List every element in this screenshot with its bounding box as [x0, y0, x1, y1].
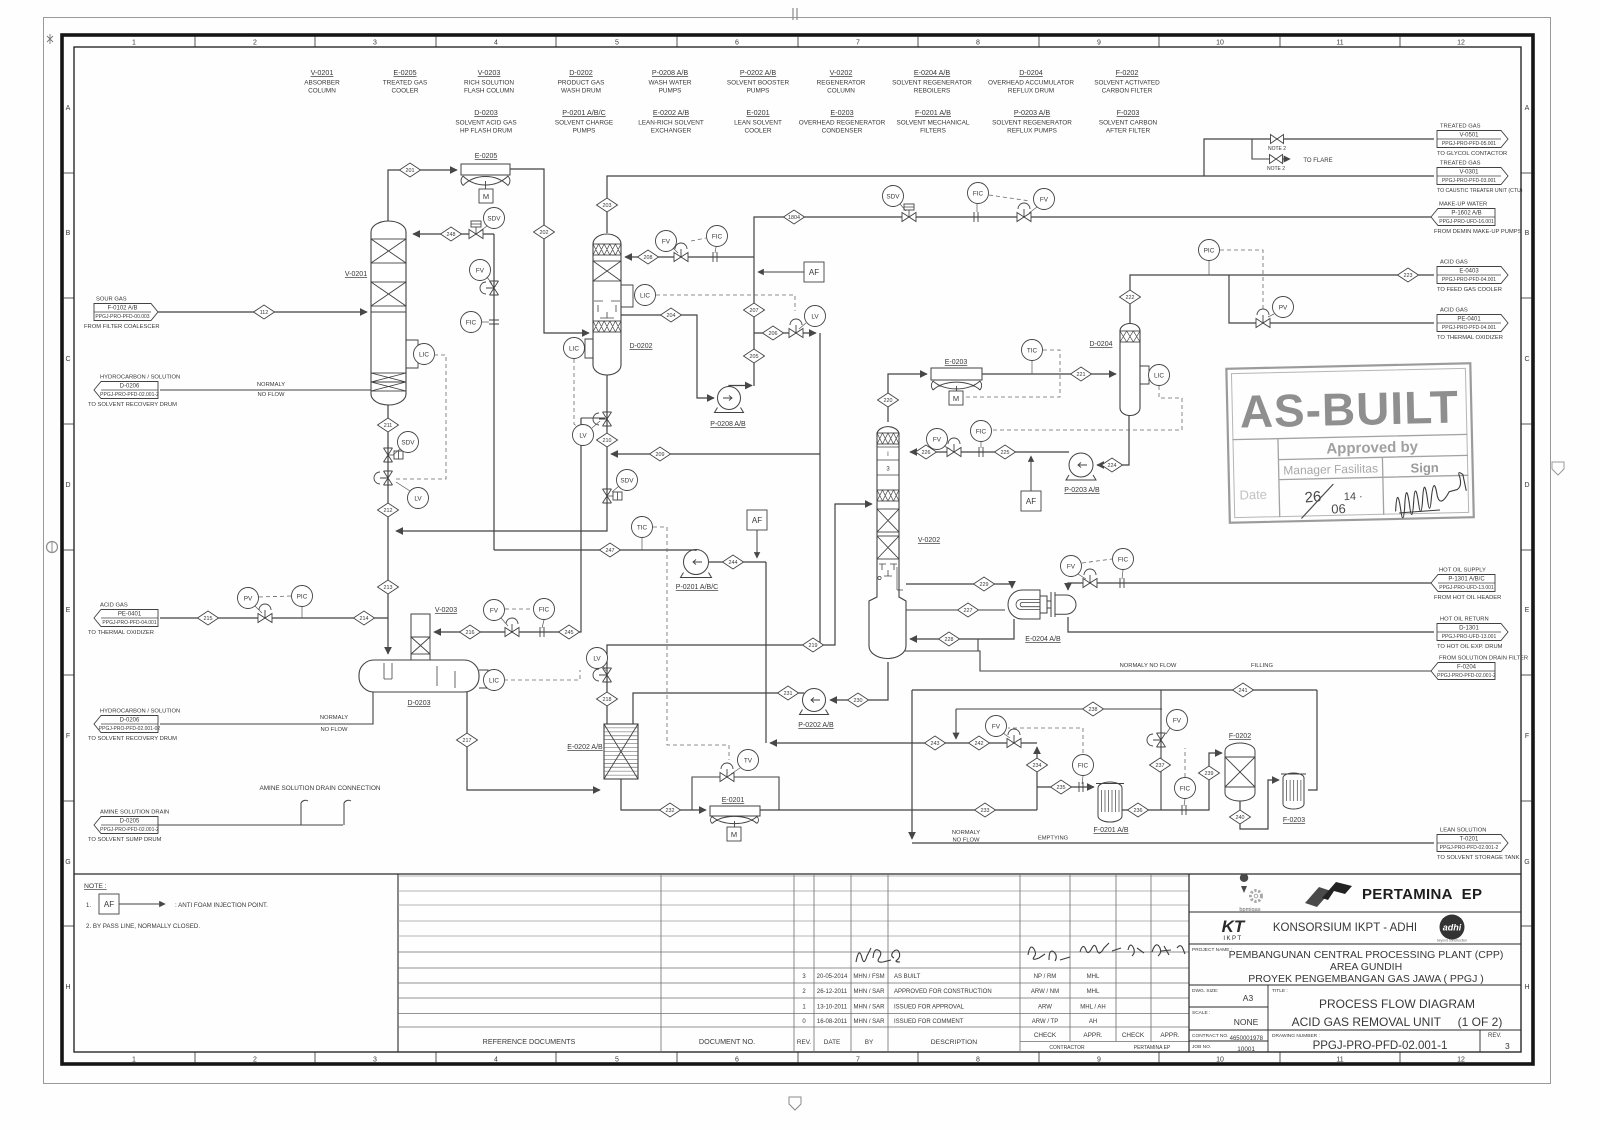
- signal FIC stem: [482, 321, 489, 323]
- node stream 228: [939, 632, 960, 646]
- PV control valve line 214: [258, 604, 272, 623]
- svg-text:TREATED GAS: TREATED GAS: [383, 80, 428, 87]
- wire V-0202 overhead to E-0203: [888, 374, 927, 422]
- LV control valve on V-0201 bottoms: [374, 471, 393, 485]
- svg-text:P-0208 A/B: P-0208 A/B: [652, 68, 689, 77]
- air cooler E-0205: [461, 164, 510, 189]
- wire V-0201 bottoms to D-0203: [387, 405, 389, 654]
- instrument LV: [805, 306, 826, 327]
- signal PV slant: [255, 606, 262, 613]
- node stream 219: [803, 638, 824, 652]
- svg-text:P-0202 A/B: P-0202 A/B: [798, 722, 834, 729]
- svg-text:WASH DRUM: WASH DRUM: [561, 88, 601, 95]
- svg-text:HOT OIL SUPPLY: HOT OIL SUPPLY: [1439, 568, 1486, 574]
- svg-text:TITLE :: TITLE :: [1272, 988, 1288, 994]
- svg-text:211: 211: [384, 423, 393, 429]
- signal FV-FIC dashed hot oil: [1082, 559, 1112, 563]
- signal PIC to PV dashed: [1220, 250, 1263, 311]
- wire P-0202 discharge to E-0202 hot side: [633, 693, 804, 724]
- svg-text:H: H: [65, 984, 70, 991]
- svg-text:F-0203: F-0203: [1117, 108, 1140, 117]
- svg-text:D-1301: D-1301: [1459, 626, 1479, 632]
- svg-text:226: 226: [922, 450, 931, 456]
- signal FIC stem 216: [542, 620, 544, 628]
- wire AF injection to riser x754: [758, 271, 804, 273]
- svg-text:NO FLOW: NO FLOW: [257, 392, 285, 398]
- reflux drum D-0204: [1120, 324, 1140, 416]
- svg-text:213: 213: [384, 585, 393, 591]
- svg-text:P-0201 A/B/C: P-0201 A/B/C: [562, 108, 606, 117]
- svg-text:220: 220: [884, 398, 893, 404]
- svg-text:A: A: [66, 105, 71, 112]
- svg-text:LV: LV: [811, 313, 819, 320]
- svg-text:ACID GAS: ACID GAS: [1440, 260, 1468, 266]
- svg-text:AS BUILT: AS BUILT: [894, 974, 921, 980]
- svg-text:PPGJ-PRO-PFD-05.001: PPGJ-PRO-PFD-05.001: [1442, 141, 1496, 147]
- svg-text:V-0203: V-0203: [478, 68, 501, 77]
- wire E-0201 outlet line 233: [760, 809, 1037, 811]
- FV control valve on reflux: [947, 438, 961, 457]
- svg-text:V-0301: V-0301: [1459, 170, 1479, 176]
- svg-text:215: 215: [204, 616, 213, 622]
- svg-text:PE-0401: PE-0401: [1457, 317, 1481, 323]
- instrument FIC: [968, 183, 989, 204]
- svg-text:FV: FV: [476, 267, 485, 274]
- anti-foam injection AF: [99, 894, 119, 914]
- svg-text:TO SOLVENT RECOVERY DRUM: TO SOLVENT RECOVERY DRUM: [88, 402, 177, 408]
- svg-text:APPR.: APPR.: [1160, 1032, 1179, 1039]
- svg-text:D-0206: D-0206: [120, 718, 140, 724]
- svg-text:244: 244: [729, 560, 738, 566]
- instrument TIC: [1022, 340, 1043, 361]
- svg-text:BY: BY: [865, 1039, 874, 1046]
- svg-text:bpmigas: bpmigas: [1239, 907, 1260, 913]
- drawing number cell: [1272, 1033, 1447, 1052]
- svg-text:F-0102 A/B: F-0102 A/B: [107, 306, 137, 312]
- svg-text:COLUMN: COLUMN: [827, 88, 855, 95]
- signal SDV slant 210: [612, 486, 619, 492]
- svg-text:208: 208: [644, 255, 653, 261]
- svg-text:E-0204 A/B: E-0204 A/B: [914, 68, 951, 77]
- svg-text:224: 224: [1108, 463, 1117, 469]
- instrument FIC: [1113, 549, 1134, 570]
- stream tag PE-0401: [1437, 308, 1508, 342]
- signal LIC D-0203 to LV: [504, 670, 580, 680]
- svg-text:240: 240: [1236, 815, 1245, 821]
- node stream 234: [1027, 758, 1048, 772]
- FV control valve line 242: [1007, 729, 1021, 748]
- wire AF injection to reflux line: [1030, 456, 1032, 491]
- svg-text:06: 06: [1331, 501, 1346, 516]
- node stream 209: [650, 447, 671, 461]
- svg-text:HYDROCARBON / SOLUTION: HYDROCARBON / SOLUTION: [100, 709, 180, 715]
- svg-text:20-05-2014: 20-05-2014: [817, 974, 848, 980]
- svg-text:PPGJ-PRO-UFD-16.001: PPGJ-PRO-UFD-16.001: [1439, 219, 1494, 225]
- svg-text:D-0202: D-0202: [630, 343, 653, 350]
- svg-text:TO THERMAL OXIDIZER: TO THERMAL OXIDIZER: [88, 630, 154, 636]
- wire vertical x1317 to F-0203: [1308, 690, 1317, 790]
- svg-text:NO FLOW: NO FLOW: [320, 727, 348, 733]
- signal PV-PIC dashed: [259, 596, 291, 597]
- svg-text:8: 8: [976, 1057, 980, 1064]
- svg-text:DWG. SIZE:: DWG. SIZE:: [1192, 988, 1218, 994]
- wire sour gas feed to V-0201: [158, 311, 367, 313]
- svg-text:D-0205: D-0205: [120, 819, 140, 825]
- svg-text:AH: AH: [1089, 1019, 1097, 1025]
- svg-text:IKPT: IKPT: [1223, 936, 1242, 942]
- svg-text:3: 3: [1505, 1041, 1510, 1051]
- svg-text:1.: 1.: [86, 903, 91, 909]
- svg-text:COOLER: COOLER: [392, 88, 419, 95]
- svg-text:242: 242: [975, 741, 984, 747]
- svg-text:AFTER FILTER: AFTER FILTER: [1106, 128, 1151, 135]
- svg-text:V-0202: V-0202: [918, 537, 940, 544]
- node stream 225: [995, 445, 1016, 459]
- stream tag V-0301: [1437, 161, 1523, 195]
- node stream 232: [660, 803, 681, 817]
- signal SDV slant make-up: [900, 204, 906, 211]
- level bridle D-0204: [1140, 366, 1149, 384]
- LV control valve on D-0202 bottoms: [593, 412, 612, 426]
- svg-text:TIC: TIC: [1027, 347, 1038, 354]
- grid ruler numbers top: [132, 36, 1465, 47]
- stream tag PE-0401: [88, 603, 158, 637]
- AS-BUILT stamp: [1226, 363, 1473, 522]
- svg-text:7: 7: [856, 1057, 860, 1064]
- svg-text:F-0202: F-0202: [1229, 733, 1251, 740]
- instrument FV: [1167, 710, 1188, 731]
- wire D-0204 overhead acid gas: [1130, 275, 1397, 324]
- svg-text:LEAN SOLUTION: LEAN SOLUTION: [1440, 828, 1486, 834]
- FV control valve on F-0202 feed: [1147, 733, 1166, 747]
- wire make-up water main: [754, 217, 1431, 386]
- svg-text:TO SOLVENT SUMP DRUM: TO SOLVENT SUMP DRUM: [88, 837, 162, 843]
- signal FV-FIC dashed: [691, 238, 706, 241]
- instrument LV: [587, 648, 608, 669]
- level bridle V-0201: [406, 340, 418, 368]
- svg-text:TIC: TIC: [637, 524, 648, 531]
- instrument FIC: [534, 599, 555, 620]
- svg-text:TREATED GAS: TREATED GAS: [1440, 124, 1481, 130]
- svg-text:112: 112: [260, 310, 269, 316]
- signal FIC stem hot oil: [1122, 570, 1123, 579]
- svg-text:D-0202: D-0202: [569, 68, 593, 77]
- svg-text:231: 231: [784, 691, 793, 697]
- node stream 223: [1398, 268, 1419, 282]
- svg-text:P-1301 A/B/C: P-1301 A/B/C: [1448, 577, 1485, 583]
- instrument FV: [1034, 189, 1055, 210]
- svg-text:KONSORSIUM IKPT - ADHI: KONSORSIUM IKPT - ADHI: [1273, 922, 1417, 934]
- svg-text:13-10-2011: 13-10-2011: [817, 1005, 848, 1011]
- svg-text:LV: LV: [414, 495, 422, 502]
- node stream 247: [600, 543, 621, 557]
- title block frame: [1189, 874, 1521, 1052]
- instrument FIC: [1073, 755, 1094, 776]
- svg-text:230: 230: [854, 698, 863, 704]
- svg-text:FIC: FIC: [976, 428, 987, 435]
- svg-text:F-0201 A/B: F-0201 A/B: [915, 108, 951, 117]
- svg-text:203: 203: [603, 203, 612, 209]
- svg-text:CARBON FILTER: CARBON FILTER: [1102, 88, 1153, 95]
- svg-text:SDV: SDV: [886, 193, 900, 200]
- svg-text:210: 210: [603, 438, 612, 444]
- svg-text:NORMALY NO FLOW: NORMALY NO FLOW: [1120, 663, 1177, 669]
- svg-text:MHN / SAR: MHN / SAR: [853, 989, 885, 995]
- svg-text:V-0201: V-0201: [311, 68, 334, 77]
- FV control valve line 216: [505, 618, 519, 637]
- node stream 239: [1199, 766, 1220, 780]
- node stream 238: [1083, 702, 1104, 716]
- node stream 236: [1128, 803, 1149, 817]
- signal FIC stem 235: [1082, 776, 1083, 784]
- node stream 202: [534, 225, 555, 239]
- wire FV line to F-0202 branch: [1160, 690, 1162, 810]
- instrument FV: [484, 600, 505, 621]
- wire E-0205 outlet to D-0202: [510, 169, 589, 333]
- svg-text:NOTE 2: NOTE 2: [1268, 146, 1286, 152]
- wire lean solution bottom line: [912, 842, 1434, 844]
- svg-text:TV: TV: [744, 757, 753, 764]
- SDV valve on V-0201 lean feed: [469, 221, 483, 239]
- svg-text:REBOILERS: REBOILERS: [914, 88, 951, 95]
- signal FV slant make-up: [1029, 207, 1037, 213]
- svg-text:PERTAMINA EP: PERTAMINA EP: [1134, 1045, 1171, 1051]
- wire lean header line B y690: [912, 689, 1317, 691]
- wire line 247 lean solvent header: [494, 549, 696, 551]
- svg-text:228: 228: [945, 637, 954, 643]
- instrument SDV: [883, 186, 904, 207]
- svg-text:PV: PV: [244, 595, 253, 602]
- svg-text:TREATED GAS: TREATED GAS: [1440, 161, 1481, 167]
- svg-text:F-0201 A/B: F-0201 A/B: [1093, 827, 1128, 834]
- filter F-0202: [1225, 743, 1255, 801]
- filter F-0201 A/B: [1096, 782, 1124, 822]
- motor M: [949, 391, 963, 405]
- svg-text:227: 227: [964, 608, 973, 614]
- instrument LV: [408, 488, 429, 509]
- wire P-0208 discharge up to wash line: [729, 386, 752, 388]
- svg-text:PPGJ-PRO-PFD-02.001-2: PPGJ-PRO-PFD-02.001-2: [100, 827, 159, 833]
- wire V-0202 bottoms to P-0202: [830, 662, 888, 700]
- svg-text:D-0204: D-0204: [1019, 68, 1043, 77]
- grid ruler numbers bottom: [132, 1052, 1465, 1064]
- signal PIC stem: [1208, 261, 1210, 275]
- wire kettle feed 227: [906, 609, 1005, 611]
- svg-text:FIC: FIC: [1180, 785, 1191, 792]
- svg-text:NONE: NONE: [1234, 1017, 1259, 1027]
- wire hot oil supply: [1068, 583, 1431, 590]
- svg-text:Date: Date: [1239, 487, 1267, 503]
- svg-text:AF: AF: [1026, 497, 1036, 506]
- svg-text:PPGJ-PRO-PFD-00.003: PPGJ-PRO-PFD-00.003: [95, 314, 149, 320]
- equipment list row 2: [455, 108, 1157, 135]
- svg-text:10001: 10001: [1237, 1046, 1255, 1053]
- svg-text:FV: FV: [933, 436, 942, 443]
- wire E-0201 bypass with TV valve: [692, 777, 779, 810]
- node stream 217: [457, 733, 478, 747]
- node stream 210: [597, 433, 618, 447]
- svg-text:1804: 1804: [788, 215, 800, 221]
- node stream 218: [597, 692, 618, 706]
- flow element: [540, 627, 544, 637]
- wire D-0203 drain to recovery drum: [160, 692, 373, 724]
- instrument SDV: [617, 470, 638, 491]
- svg-text:C: C: [65, 356, 70, 363]
- svg-text:247: 247: [606, 548, 615, 554]
- instrument SDV: [484, 208, 505, 229]
- svg-text:2. BY PASS LINE, NORMALLY CLO: 2. BY PASS LINE, NORMALLY CLOSED.: [86, 923, 200, 930]
- svg-text:MHL / AH: MHL / AH: [1080, 1005, 1105, 1011]
- node stream 112: [254, 305, 275, 319]
- signal FV slant 242: [1003, 733, 1010, 738]
- wire bypass line 238: [956, 708, 1162, 710]
- instrument FV: [1061, 556, 1082, 577]
- pump: [1066, 453, 1096, 480]
- regenerator column V-0202: [869, 427, 906, 659]
- svg-text:REGENERATOR: REGENERATOR: [817, 80, 866, 87]
- svg-text:P-0201 A/B/C: P-0201 A/B/C: [676, 584, 718, 591]
- node stream 245: [559, 625, 580, 639]
- TV control valve on E-0201 bypass: [720, 763, 734, 782]
- svg-text:E: E: [66, 607, 71, 614]
- wire acid gas to feed gas cooler: [1397, 274, 1434, 276]
- flow element: [713, 252, 717, 262]
- level bridle D-0203: [479, 670, 488, 688]
- equipment list row 1: [304, 68, 1160, 95]
- svg-text:V-0202: V-0202: [830, 68, 853, 77]
- svg-text:26: 26: [1304, 488, 1322, 506]
- svg-text:E-0201: E-0201: [722, 797, 745, 804]
- signal FIC stem 208: [715, 247, 716, 253]
- svg-text:PUMPS: PUMPS: [659, 88, 682, 95]
- svg-text:NO FLOW: NO FLOW: [952, 838, 980, 844]
- node stream 201: [400, 163, 421, 177]
- fold mark right: [1552, 462, 1564, 475]
- signature scribble appr contractor: [1080, 943, 1121, 953]
- svg-text:F: F: [1525, 733, 1529, 740]
- svg-text:NOTE 2: NOTE 2: [1267, 166, 1285, 172]
- wire flare branch: [1252, 139, 1290, 159]
- svg-text:DESCRIPTION: DESCRIPTION: [931, 1039, 978, 1046]
- svg-text:G: G: [65, 859, 70, 866]
- wash drum column D-0202: [593, 234, 621, 375]
- svg-text:SOLVENT REGENERATOR: SOLVENT REGENERATOR: [992, 120, 1072, 127]
- amine drain connection hooks: [301, 800, 351, 825]
- svg-text:FROM FILTER COALESCER: FROM FILTER COALESCER: [84, 324, 160, 330]
- svg-text:ISSUED FOR APPROVAL: ISSUED FOR APPROVAL: [894, 1005, 965, 1011]
- svg-text:5: 5: [615, 1057, 619, 1064]
- node stream 235: [1051, 780, 1072, 794]
- air cooler E-0201: [710, 806, 760, 827]
- node stream 227: [958, 603, 979, 617]
- instrument PIC: [292, 586, 313, 607]
- svg-text:FROM SOLUTION DRAIN FILTER: FROM SOLUTION DRAIN FILTER: [1439, 656, 1528, 662]
- instrument FV: [927, 429, 948, 450]
- instrument LIC: [484, 670, 505, 691]
- svg-text:PPGJ-PRO-PFD-02.001-02: PPGJ-PRO-PFD-02.001-02: [99, 726, 161, 732]
- svg-text:237: 237: [1156, 763, 1165, 769]
- node stream 222: [1120, 290, 1141, 304]
- svg-text:PUMPS: PUMPS: [747, 88, 770, 95]
- svg-text:11: 11: [1336, 1057, 1343, 1064]
- svg-text:JOB NO.: JOB NO.: [1192, 1044, 1211, 1050]
- svg-text:TO GLYCOL CONTACTOR: TO GLYCOL CONTACTOR: [1437, 151, 1507, 157]
- svg-text:245: 245: [565, 630, 574, 636]
- svg-text:202: 202: [540, 230, 549, 236]
- logo ikpt: [1222, 917, 1246, 942]
- stream tag P-1301 A/B/C: [1431, 568, 1501, 602]
- anti-foam injection AF: [1021, 491, 1041, 511]
- wire line 206 letdown to regenerator: [754, 332, 816, 334]
- node stream 208: [638, 250, 659, 264]
- svg-text:SOUR GAS: SOUR GAS: [96, 297, 127, 303]
- svg-text:4: 4: [494, 1057, 498, 1064]
- wire hot oil return: [1068, 617, 1434, 632]
- instrument FIC: [461, 312, 482, 333]
- svg-text:E-0203: E-0203: [830, 108, 853, 117]
- wire solution drain filling line: [905, 651, 1434, 671]
- svg-text:REV.: REV.: [797, 1039, 812, 1046]
- signal FV slant: [487, 277, 492, 284]
- wire V-0201 overhead to E-0205: [388, 170, 457, 221]
- svg-text:7: 7: [856, 40, 860, 47]
- wire filter feed branch to F-0201: [1037, 786, 1094, 788]
- svg-text:PEMBANGUNAN CENTRAL PROCESSING: PEMBANGUNAN CENTRAL PROCESSING PLANT (CP…: [1229, 949, 1504, 961]
- svg-text:C: C: [1524, 356, 1529, 363]
- svg-text:D-0203: D-0203: [474, 108, 498, 117]
- svg-text:MAKE-UP WATER: MAKE-UP WATER: [1439, 202, 1487, 208]
- wire riser 234 from line 233 to line 242: [1036, 747, 1038, 810]
- table header texts: [483, 1032, 1180, 1051]
- instrument FIC: [1175, 778, 1196, 799]
- svg-text:: ANTI FOAM INJECTION POINT.: : ANTI FOAM INJECTION POINT.: [175, 902, 268, 909]
- svg-text:E-0204 A/B: E-0204 A/B: [1025, 636, 1061, 643]
- node stream 221: [1071, 367, 1092, 381]
- svg-text:NORMALY: NORMALY: [952, 830, 980, 836]
- anti-foam injection AF: [804, 262, 824, 282]
- signal FV slant 208: [673, 248, 678, 253]
- svg-text:NORMALY: NORMALY: [320, 715, 348, 721]
- revision table entries: [802, 974, 1105, 1025]
- svg-text:MHN / SAR: MHN / SAR: [853, 1019, 885, 1025]
- instrument PV: [1273, 297, 1294, 318]
- stream tag D-0206: [88, 375, 180, 409]
- instrument LV: [573, 425, 594, 446]
- svg-text:REFLUX DRUM: REFLUX DRUM: [1008, 88, 1054, 95]
- svg-text:241: 241: [1239, 688, 1248, 694]
- signal TIC stem E-0203: [1031, 361, 1033, 374]
- svg-text:LIC: LIC: [640, 292, 650, 299]
- wire acid gas line 214 to thermal oxidizer: [160, 617, 388, 619]
- signal LV slant 218: [603, 666, 606, 671]
- svg-text:2: 2: [253, 40, 257, 47]
- svg-text:10: 10: [1216, 1057, 1224, 1064]
- signal TIC stem: [641, 538, 643, 550]
- svg-text:NOTE :: NOTE :: [84, 883, 107, 890]
- svg-text:B: B: [1525, 230, 1530, 237]
- corner mark top-left: [47, 34, 53, 44]
- logo pertamina ep: [1305, 882, 1482, 907]
- wire P-0201 suction stub: [695, 550, 697, 551]
- signature scribble check contractor: [1028, 947, 1070, 961]
- svg-text:3: 3: [373, 1057, 377, 1064]
- FV control valve hot oil: [1083, 569, 1097, 588]
- svg-text:CHECK: CHECK: [1034, 1032, 1057, 1039]
- svg-text:239: 239: [1205, 771, 1214, 777]
- svg-text:ARW / TP: ARW / TP: [1032, 1019, 1058, 1025]
- svg-text:P-0203 A/B: P-0203 A/B: [1064, 487, 1100, 494]
- node stream 243: [925, 736, 946, 750]
